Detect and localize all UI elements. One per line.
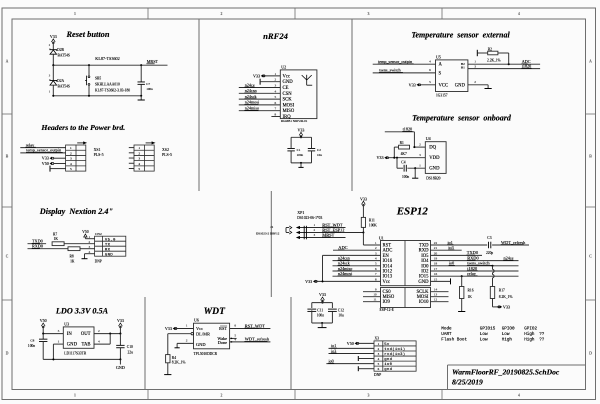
svg-text:C10: C10 bbox=[127, 345, 133, 349]
svg-text:Low: Low bbox=[502, 332, 510, 337]
svg-text:10u: 10u bbox=[338, 314, 344, 318]
svg-text:5: 5 bbox=[429, 80, 431, 84]
svg-text:1G3157: 1G3157 bbox=[436, 93, 448, 97]
svg-text:LD1117S33TR: LD1117S33TR bbox=[64, 351, 86, 355]
svg-text:n24sck: n24sck bbox=[245, 94, 258, 99]
svg-text:8.2K_1%: 8.2K_1% bbox=[172, 361, 186, 365]
svg-text:VCC: VCC bbox=[439, 83, 449, 88]
svg-text:C11: C11 bbox=[317, 309, 323, 313]
svg-text:R11: R11 bbox=[369, 219, 375, 223]
svg-text:Low: Low bbox=[480, 337, 488, 342]
svg-text:3: 3 bbox=[58, 329, 60, 333]
svg-text:PLS-5: PLS-5 bbox=[94, 153, 104, 157]
svg-text:5: 5 bbox=[375, 262, 377, 266]
svg-text:2: 2 bbox=[221, 12, 223, 16]
svg-text:temp_sensor_outpin: temp_sensor_outpin bbox=[378, 59, 413, 64]
svg-text:U2: U2 bbox=[281, 64, 286, 69]
svg-text:C8: C8 bbox=[30, 338, 34, 342]
svg-text:1: 1 bbox=[186, 324, 188, 328]
svg-text:3: 3 bbox=[274, 84, 276, 88]
svg-text:B1: B1 bbox=[461, 66, 465, 70]
svg-text:2: 2 bbox=[98, 329, 100, 333]
svg-text:V33: V33 bbox=[253, 73, 260, 78]
svg-text:R4: R4 bbox=[172, 356, 176, 360]
svg-text:TAB: TAB bbox=[82, 343, 91, 348]
svg-text:LDO 3.3V 0.5A: LDO 3.3V 0.5A bbox=[55, 306, 109, 315]
svg-text:C4: C4 bbox=[401, 161, 405, 165]
svg-text:R8: R8 bbox=[70, 254, 74, 258]
svg-text:3: 3 bbox=[368, 12, 370, 16]
svg-text:gnd: gnd bbox=[384, 367, 392, 372]
svg-text:SKHLLAAA010: SKHLLAAA010 bbox=[95, 83, 120, 87]
svg-text:4: 4 bbox=[138, 162, 140, 166]
svg-text:V33: V33 bbox=[305, 279, 312, 284]
svg-text:V33: V33 bbox=[165, 326, 172, 331]
svg-text:1K: 1K bbox=[70, 259, 75, 263]
svg-text:6: 6 bbox=[375, 267, 377, 271]
svg-text:18: 18 bbox=[434, 262, 438, 266]
svg-text:High: High bbox=[524, 332, 535, 337]
svg-text:t1820: t1820 bbox=[403, 127, 413, 132]
svg-text:t1820: t1820 bbox=[522, 63, 532, 68]
svg-text:Mode: Mode bbox=[441, 326, 452, 331]
svg-text:DQ: DQ bbox=[429, 146, 436, 151]
svg-text:V33: V33 bbox=[319, 292, 326, 297]
svg-text:tsens_switch: tsens_switch bbox=[379, 68, 401, 73]
svg-text:4: 4 bbox=[70, 162, 72, 166]
svg-text:Reset button: Reset button bbox=[65, 30, 109, 39]
svg-text:TPL5010DDCR: TPL5010DDCR bbox=[194, 352, 218, 356]
svg-text:n24mosi: n24mosi bbox=[245, 100, 260, 105]
svg-text:Temperature sensor external: Temperature sensor external bbox=[411, 31, 510, 40]
svg-text:RST_WDT: RST_WDT bbox=[245, 323, 266, 328]
svg-text:6: 6 bbox=[429, 68, 431, 72]
svg-text:PLS-5: PLS-5 bbox=[162, 153, 172, 157]
svg-text:7: 7 bbox=[274, 107, 276, 111]
svg-text:6: 6 bbox=[274, 101, 276, 105]
svg-text:4: 4 bbox=[234, 337, 236, 341]
svg-text:RGMB1 NRF24L01: RGMB1 NRF24L01 bbox=[281, 119, 308, 123]
svg-text:IO10: IO10 bbox=[419, 300, 429, 305]
svg-text:U5: U5 bbox=[436, 54, 441, 59]
svg-text:V50: V50 bbox=[347, 341, 354, 346]
svg-text:n24ce: n24ce bbox=[245, 82, 255, 87]
svg-text:4: 4 bbox=[518, 12, 520, 16]
svg-text:io0: io0 bbox=[449, 261, 454, 266]
svg-text:R7: R7 bbox=[53, 232, 57, 236]
svg-text:GND: GND bbox=[105, 253, 113, 257]
svg-text:V33: V33 bbox=[117, 318, 124, 323]
svg-text:14: 14 bbox=[434, 288, 438, 292]
svg-text:UART: UART bbox=[441, 332, 452, 337]
svg-text:Done: Done bbox=[218, 340, 227, 345]
svg-text:KL87-TS3602: KL87-TS3602 bbox=[95, 56, 119, 61]
svg-text:RST: RST bbox=[219, 326, 227, 331]
svg-text:High: High bbox=[524, 337, 535, 342]
svg-text:J1: J1 bbox=[270, 225, 273, 229]
svg-text:DS1023-06-1*03: DS1023-06-1*03 bbox=[297, 216, 322, 220]
svg-text:A: A bbox=[589, 59, 592, 63]
svg-text:8.2K_1%: 8.2K_1% bbox=[499, 295, 513, 299]
svg-text:V5.0: V5.0 bbox=[105, 238, 116, 242]
svg-text:D: D bbox=[589, 351, 592, 355]
svg-text:4: 4 bbox=[98, 339, 100, 343]
svg-text:B: B bbox=[6, 154, 9, 158]
svg-text:V33: V33 bbox=[360, 196, 367, 201]
svg-text:3: 3 bbox=[419, 153, 421, 157]
svg-text:20: 20 bbox=[434, 251, 438, 255]
svg-text:7: 7 bbox=[375, 272, 377, 276]
svg-text:GND: GND bbox=[283, 80, 294, 85]
svg-text:100n: 100n bbox=[402, 175, 409, 179]
svg-text:ESP12: ESP12 bbox=[396, 206, 429, 218]
svg-text:V33: V33 bbox=[503, 304, 510, 309]
svg-text:3: 3 bbox=[474, 64, 476, 68]
svg-text:10: 10 bbox=[373, 293, 377, 297]
svg-text:2: 2 bbox=[138, 151, 140, 155]
svg-text:1: 1 bbox=[419, 164, 421, 168]
svg-text:rxd(io3): rxd(io3) bbox=[384, 352, 405, 357]
svg-text:DNP: DNP bbox=[95, 259, 102, 263]
svg-text:DS18B20: DS18B20 bbox=[426, 177, 440, 181]
svg-text:CSN: CSN bbox=[283, 92, 293, 97]
svg-text:Display Nextion 2.4": Display Nextion 2.4" bbox=[39, 207, 113, 216]
svg-text:D2B: D2B bbox=[57, 48, 64, 52]
svg-text:Low: Low bbox=[480, 332, 488, 337]
svg-text:nRF24: nRF24 bbox=[263, 31, 289, 41]
svg-text:R1: R1 bbox=[400, 141, 404, 145]
svg-text:5: 5 bbox=[274, 95, 276, 99]
svg-text:io3: io3 bbox=[448, 245, 453, 250]
svg-text:2.2K_1%: 2.2K_1% bbox=[487, 59, 501, 63]
svg-text:RXD0: RXD0 bbox=[32, 244, 43, 249]
svg-text:3: 3 bbox=[70, 157, 72, 161]
svg-text:2: 2 bbox=[419, 143, 421, 147]
svg-text:SB5: SB5 bbox=[95, 76, 101, 80]
svg-text:4: 4 bbox=[274, 89, 276, 93]
svg-text:ADC: ADC bbox=[338, 245, 347, 250]
svg-text:2: 2 bbox=[313, 228, 315, 232]
svg-text:2: 2 bbox=[375, 246, 377, 250]
svg-text:TX: TX bbox=[105, 243, 111, 247]
svg-text:XS2: XS2 bbox=[162, 148, 169, 152]
svg-text:WDT: WDT bbox=[204, 306, 226, 317]
svg-text:1: 1 bbox=[74, 12, 76, 16]
svg-text:Vcc: Vcc bbox=[196, 326, 203, 331]
svg-text:n24mosi: n24mosi bbox=[338, 271, 353, 276]
svg-text:10u: 10u bbox=[317, 153, 322, 157]
svg-text:GPIO0: GPIO0 bbox=[502, 326, 515, 331]
svg-text:DS1023-2 DBF12: DS1023-2 DBF12 bbox=[256, 232, 280, 236]
svg-text:GND: GND bbox=[116, 365, 125, 370]
svg-text:DNP: DNP bbox=[374, 373, 381, 377]
svg-text:4: 4 bbox=[429, 59, 431, 63]
svg-text:2: 2 bbox=[474, 80, 476, 84]
svg-text:D: D bbox=[6, 351, 9, 355]
svg-text:GND: GND bbox=[196, 342, 206, 347]
svg-text:8/25/2019: 8/25/2019 bbox=[452, 377, 483, 386]
svg-text:??: ?? bbox=[539, 332, 545, 337]
svg-text:io3: io3 bbox=[331, 348, 336, 353]
svg-text:GND: GND bbox=[67, 343, 78, 348]
svg-text:C3: C3 bbox=[487, 236, 491, 240]
svg-text:U3: U3 bbox=[64, 321, 69, 326]
svg-text:100n: 100n bbox=[146, 87, 153, 91]
svg-text:ESP-12-E: ESP-12-E bbox=[380, 308, 395, 312]
svg-text:SCK: SCK bbox=[283, 98, 293, 103]
svg-text:C: C bbox=[6, 254, 9, 258]
svg-text:io0: io0 bbox=[329, 358, 334, 363]
svg-text:CN2: CN2 bbox=[95, 232, 102, 236]
svg-text:V33: V33 bbox=[409, 82, 416, 87]
svg-text:13: 13 bbox=[434, 293, 438, 297]
svg-text:2: 2 bbox=[274, 78, 276, 82]
svg-text:V33: V33 bbox=[42, 156, 49, 161]
svg-text:100n: 100n bbox=[28, 344, 35, 348]
svg-text:BAT54S: BAT54S bbox=[58, 84, 70, 88]
svg-text:2: 2 bbox=[221, 394, 223, 398]
svg-text:2: 2 bbox=[70, 151, 72, 155]
svg-text:1: 1 bbox=[58, 339, 60, 343]
svg-text:XP1: XP1 bbox=[297, 210, 304, 215]
svg-text:MOSI: MOSI bbox=[283, 103, 295, 108]
svg-text:8: 8 bbox=[274, 113, 276, 117]
svg-text:3: 3 bbox=[368, 394, 370, 398]
svg-text:6: 6 bbox=[234, 324, 236, 328]
svg-text:3: 3 bbox=[138, 157, 140, 161]
svg-text:n24ce: n24ce bbox=[504, 255, 514, 260]
svg-text:4: 4 bbox=[375, 257, 377, 261]
svg-text:GND: GND bbox=[429, 167, 440, 172]
svg-text:220p: 220p bbox=[486, 251, 493, 255]
svg-text:R2: R2 bbox=[488, 48, 492, 52]
svg-text:17: 17 bbox=[434, 267, 438, 271]
svg-text:V33: V33 bbox=[298, 128, 305, 133]
svg-text:21: 21 bbox=[434, 246, 438, 250]
svg-text:RX: RX bbox=[105, 248, 111, 252]
svg-text:U4: U4 bbox=[426, 136, 431, 141]
svg-text:12: 12 bbox=[434, 298, 438, 302]
svg-text:R17: R17 bbox=[499, 289, 505, 293]
svg-text:n24miso: n24miso bbox=[245, 106, 259, 111]
svg-text:Temperature sensor onboard: Temperature sensor onboard bbox=[412, 114, 512, 123]
svg-text:IN: IN bbox=[67, 332, 73, 337]
svg-text:V33: V33 bbox=[50, 34, 57, 39]
svg-text:8: 8 bbox=[375, 277, 377, 281]
svg-text:4K7: 4K7 bbox=[401, 152, 407, 156]
svg-text:CE: CE bbox=[283, 86, 289, 91]
svg-text:3: 3 bbox=[375, 251, 377, 255]
svg-text:WarmFloorRF_20190825.SchDoc: WarmFloorRF_20190825.SchDoc bbox=[452, 367, 560, 376]
svg-text:Vcc: Vcc bbox=[283, 74, 291, 79]
svg-text:V50: V50 bbox=[40, 318, 47, 323]
svg-text:R16: R16 bbox=[468, 289, 474, 293]
svg-text:C2: C2 bbox=[317, 148, 321, 152]
svg-text:MISO: MISO bbox=[283, 109, 295, 114]
svg-text:C12: C12 bbox=[338, 309, 344, 313]
svg-text:1: 1 bbox=[474, 59, 476, 63]
svg-text:GND: GND bbox=[455, 83, 466, 88]
svg-text:gnd: gnd bbox=[384, 357, 392, 362]
svg-text:High: High bbox=[502, 337, 513, 342]
svg-text:A: A bbox=[6, 59, 9, 63]
svg-text:BAT54S: BAT54S bbox=[58, 53, 70, 57]
svg-text:IO9: IO9 bbox=[383, 300, 391, 305]
svg-text:100n: 100n bbox=[317, 314, 324, 318]
svg-text:S: S bbox=[439, 71, 442, 76]
svg-text:C: C bbox=[589, 254, 592, 258]
svg-text:n24csn: n24csn bbox=[245, 88, 258, 93]
svg-text:GPIO2: GPIO2 bbox=[524, 326, 537, 331]
svg-text:5v: 5v bbox=[384, 343, 390, 347]
svg-text:1: 1 bbox=[70, 146, 72, 150]
svg-text:V50: V50 bbox=[42, 161, 49, 166]
svg-text:temp_sensor_outpin: temp_sensor_outpin bbox=[26, 148, 62, 153]
svg-text:OUT: OUT bbox=[81, 332, 91, 337]
svg-text:V33: V33 bbox=[376, 155, 383, 160]
svg-text:Flash Boot: Flash Boot bbox=[441, 337, 467, 342]
svg-text:relay: relay bbox=[467, 271, 477, 276]
svg-text:relay: relay bbox=[26, 142, 35, 147]
svg-text:2: 2 bbox=[186, 338, 188, 342]
svg-text:11: 11 bbox=[373, 298, 377, 302]
svg-text:4: 4 bbox=[518, 394, 520, 398]
svg-text:22u: 22u bbox=[128, 350, 134, 354]
svg-text:WDT_refresh: WDT_refresh bbox=[501, 240, 526, 245]
svg-text:1: 1 bbox=[274, 72, 276, 76]
svg-text:B: B bbox=[589, 154, 592, 158]
svg-text:C7: C7 bbox=[146, 82, 150, 86]
svg-text:WDT_refresh: WDT_refresh bbox=[245, 337, 270, 342]
svg-text:3: 3 bbox=[313, 233, 315, 237]
svg-text:U6: U6 bbox=[194, 318, 199, 323]
svg-text:txd(io1): txd(io1) bbox=[384, 347, 405, 352]
svg-text:MRST: MRST bbox=[322, 232, 334, 237]
svg-text:100K: 100K bbox=[369, 223, 377, 227]
svg-text:Headers to the Power brd.: Headers to the Power brd. bbox=[40, 123, 125, 132]
svg-text:??: ?? bbox=[539, 337, 545, 342]
svg-text:22: 22 bbox=[434, 241, 438, 245]
svg-text:X3: X3 bbox=[375, 337, 380, 341]
svg-text:Vcc: Vcc bbox=[383, 280, 391, 285]
svg-text:C1: C1 bbox=[297, 148, 301, 152]
svg-text:GPIO15: GPIO15 bbox=[480, 326, 496, 331]
svg-text:1K: 1K bbox=[54, 237, 59, 241]
svg-text:io0: io0 bbox=[384, 362, 392, 367]
svg-text:5: 5 bbox=[70, 167, 72, 171]
svg-text:MRST: MRST bbox=[147, 59, 159, 64]
svg-text:XS1: XS1 bbox=[94, 148, 101, 152]
svg-text:1: 1 bbox=[375, 241, 377, 245]
svg-text:16: 16 bbox=[434, 272, 438, 276]
svg-text:U1: U1 bbox=[379, 235, 384, 240]
svg-text:1: 1 bbox=[313, 223, 315, 227]
svg-text:GND: GND bbox=[418, 280, 429, 285]
svg-text:9: 9 bbox=[375, 288, 377, 292]
svg-text:1: 1 bbox=[138, 146, 140, 150]
svg-text:D2A: D2A bbox=[57, 79, 64, 83]
svg-text:DL/MR: DL/MR bbox=[196, 332, 210, 337]
svg-text:KL87-TS3602-3.03-180: KL87-TS3602-3.03-180 bbox=[95, 88, 130, 92]
svg-text:1: 1 bbox=[74, 394, 76, 398]
svg-text:1K: 1K bbox=[468, 295, 473, 299]
svg-text:VDD: VDD bbox=[429, 156, 440, 161]
svg-text:15: 15 bbox=[434, 277, 438, 281]
svg-text:100n: 100n bbox=[297, 153, 304, 157]
svg-text:19: 19 bbox=[434, 257, 438, 261]
svg-text:5: 5 bbox=[138, 167, 140, 171]
